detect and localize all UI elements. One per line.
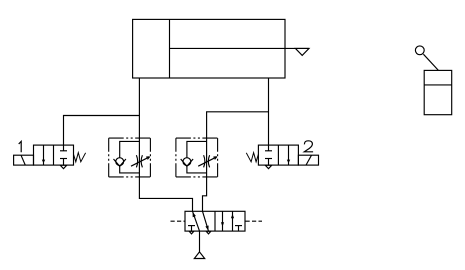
valve 2 center divider [277, 145, 279, 165]
cylinder A rod position marker triangle [295, 48, 309, 55]
flow control 1 throttle arcs [136, 155, 137, 167]
flow control 2 adjustment arrow [198, 157, 217, 166]
valve 1 right box bottom blocked port T [63, 159, 65, 166]
valve 2 roller actuator box [298, 155, 318, 165]
valve 1 left box flow line with arrow [43, 145, 45, 165]
wire branch right to flow control 2 and 5/2 valve port 2 [203, 112, 269, 212]
valve 1 roller actuator box [14, 155, 34, 165]
5/2 valve exhaust triangle port 5 [189, 231, 194, 234]
valve 2 exhaust triangle [265, 165, 271, 168]
valve 1 right box top blocked port T [60, 150, 67, 152]
5/2 valve exhaust triangle port 3 [206, 231, 211, 234]
valve 1 center divider [53, 145, 55, 165]
valve 2 return spring [246, 153, 258, 162]
flow control 2 throttle arcs [204, 155, 205, 167]
wire cylinder left port down through flow control to 5/2 valve port 4 [139, 78, 192, 211]
5/2 valve body [185, 211, 245, 231]
valve 1 actuator diagonal [21, 155, 25, 165]
5/2 valve right pilot line [246, 220, 263, 222]
cylinder A piston [169, 19, 171, 78]
5/2 valve center divider [214, 211, 216, 231]
wire branch to valve 1 [64, 116, 140, 151]
wire cylinder right port down to valve 2 [268, 78, 270, 151]
compressed air supply triangle [194, 252, 204, 259]
flow control valve 2 dashed enclosure [176, 138, 218, 177]
cylinder A piston rod [170, 47, 310, 49]
valve 2 right box flow line with arrow [288, 145, 290, 165]
air supply line [199, 231, 201, 252]
5/2 valve right box blocked port 3 T [238, 226, 240, 232]
valve 2 left box top blocked port T [265, 150, 272, 152]
flow control 1 check valve ball [116, 158, 124, 166]
label 1 [19, 141, 22, 152]
valve 1 exhaust triangle [60, 165, 66, 168]
5/2 valve right box path 4 to 5 [222, 211, 224, 231]
flow control 1 bypass loop [120, 141, 140, 157]
5/2 valve left box path 1 to 4 [193, 211, 200, 231]
flow control 1 check valve seat [114, 159, 126, 166]
flow control 2 bypass loop [187, 141, 207, 157]
roller assembly lever [423, 54, 438, 70]
valve 1 (3/2 limit valve) body [34, 145, 74, 165]
label 2 [304, 141, 313, 152]
5/2 valve left pilot line [171, 220, 185, 222]
roller assembly divider [424, 84, 452, 86]
valve 1 return spring [74, 153, 86, 162]
roller limit switch assembly top right: body [424, 70, 452, 114]
5/2 valve right box path 1 to 2 [232, 211, 234, 231]
flow control 2 check valve seat [181, 159, 193, 166]
5/2 valve left box path 2 to 3 [203, 211, 209, 231]
valve 2 actuator diagonal [306, 155, 312, 165]
cylinder A (double-acting) body [133, 19, 285, 78]
valve 2 (3/2 limit valve) body [258, 145, 298, 165]
valve 2 left box bottom blocked port T [268, 159, 270, 166]
flow control 1 adjustment arrow [131, 157, 150, 166]
flow control 2 check valve ball [183, 158, 191, 166]
5/2 valve left box blocked port 5 T [191, 226, 193, 232]
roller assembly roller circle [415, 46, 424, 55]
flow control valve 1 dashed enclosure [109, 138, 151, 177]
